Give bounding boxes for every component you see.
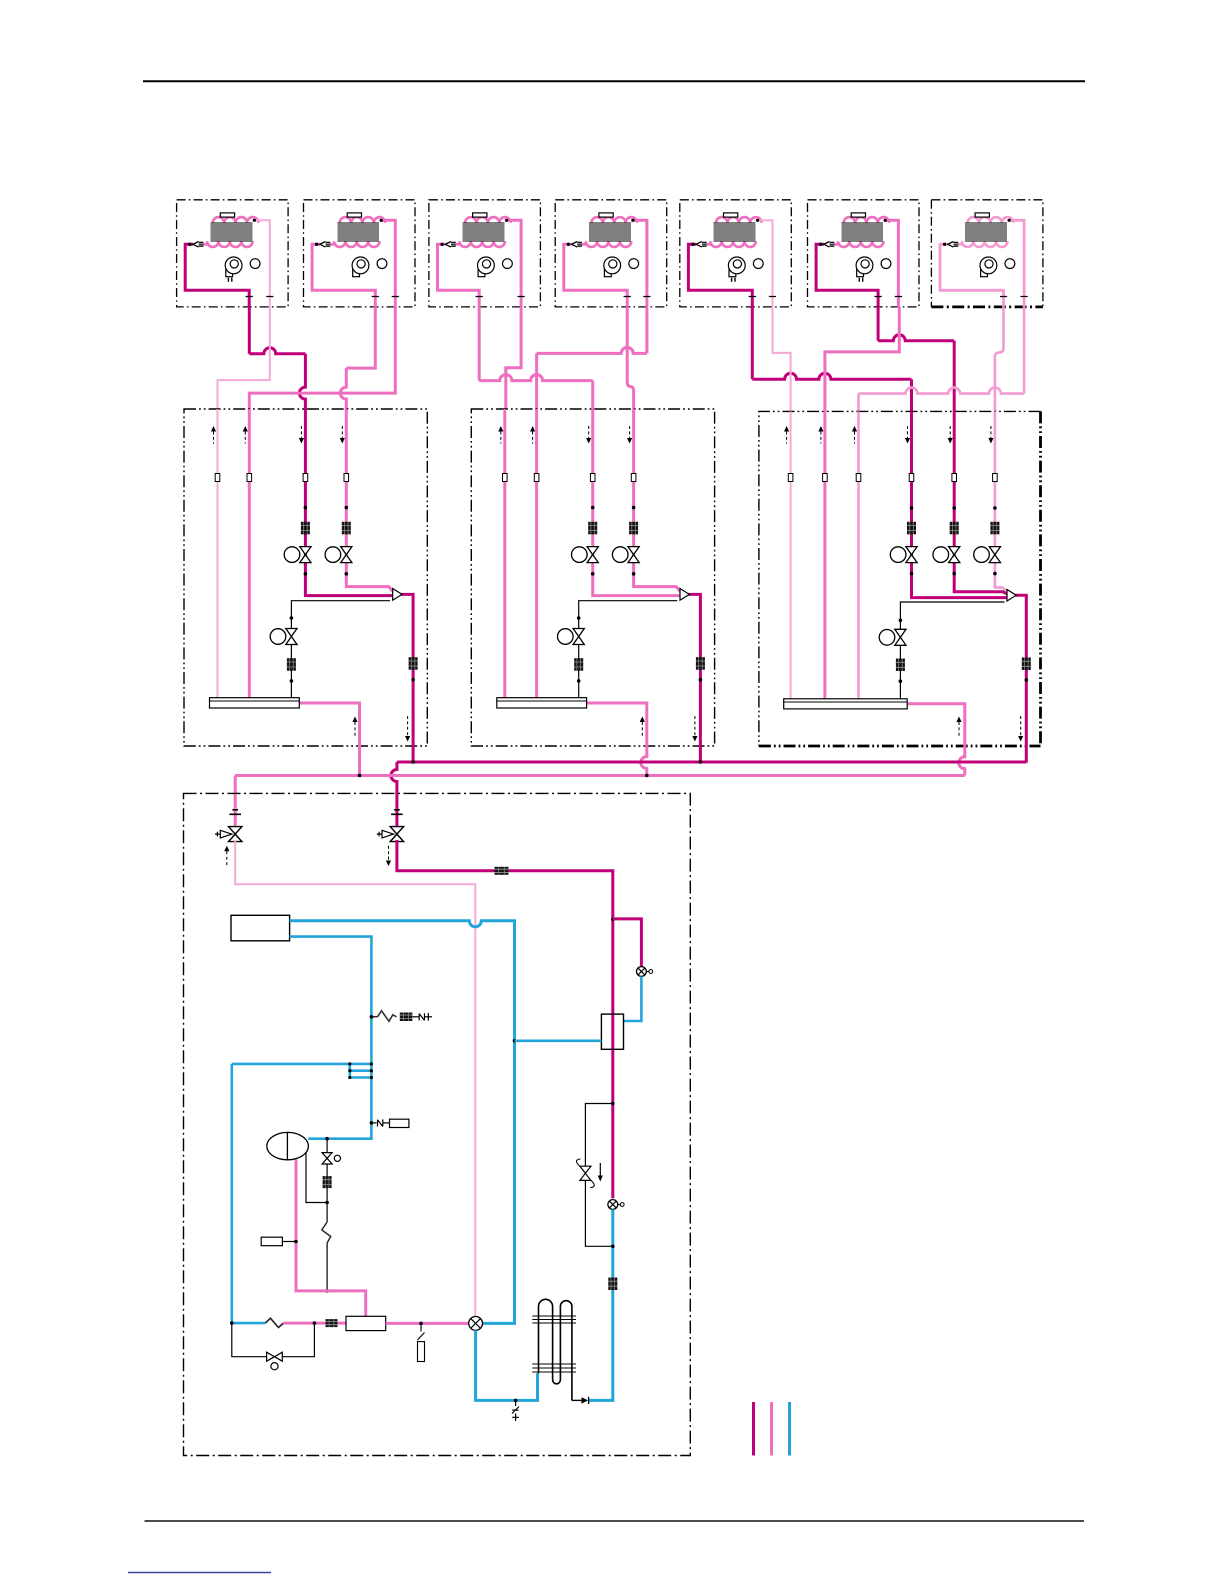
- junction dot: [411, 678, 415, 682]
- liquid line: [235, 840, 475, 1317]
- junction dot: [632, 572, 636, 576]
- IU3 liquid node: [505, 219, 508, 222]
- IU5 heat exchanger fins: [714, 223, 756, 241]
- junction dot: [699, 760, 703, 764]
- IU6 gas pipe: [816, 244, 878, 307]
- BS1 pipe D flow arrow: [340, 426, 345, 444]
- BS3 liquid branch pipe A: [790, 411, 792, 698]
- BS1 pipe A flow arrow: [211, 426, 216, 444]
- IU5 electronic expansion valve: [696, 242, 706, 248]
- gas service pipe: [395, 794, 398, 828]
- junction dot: [699, 678, 703, 682]
- wire IU6 gas horizontal: [878, 335, 954, 341]
- BS3 flow arrow down: [948, 426, 953, 444]
- high pressure switch link: [371, 1119, 389, 1126]
- IU1 electronic expansion valve: [193, 242, 203, 248]
- BS1 suction outlet pipe: [299, 703, 359, 776]
- IU4 auxiliary circle: [629, 259, 639, 269]
- BS2 pipe B flow arrow: [530, 426, 535, 444]
- IU6 thermistor: [851, 213, 865, 217]
- junction dot: [325, 1289, 329, 1293]
- IU3 gas pipe: [438, 244, 480, 307]
- IU4 electronic expansion valve: [572, 242, 582, 248]
- discharge gas line: [397, 840, 613, 1198]
- junction dot: [591, 572, 595, 576]
- IU5 auxiliary circle: [753, 259, 763, 269]
- BS1 pipe B flow arrow: [243, 426, 248, 444]
- BS3 pipe connector: [993, 474, 998, 482]
- IU2 liquid node: [380, 219, 383, 222]
- BS3 high pressure outlet pipe: [1016, 595, 1027, 763]
- junction dot: [513, 1039, 517, 1043]
- BS3 strainer: [907, 522, 916, 535]
- relief port symbol: [413, 1013, 433, 1021]
- suction gas header: [235, 774, 965, 777]
- BS3 pipe connector: [856, 474, 861, 482]
- IU7 gas node: [943, 243, 946, 246]
- BS2 motorized valve: [572, 547, 599, 563]
- service port: [512, 1400, 519, 1421]
- IU4 pipe joint ticks: [624, 296, 651, 298]
- pressure sensor PS1: [637, 967, 653, 977]
- BS1 strainer: [301, 522, 310, 535]
- IU2 pipe joint ticks: [372, 296, 399, 298]
- IU1 auxiliary circle: [250, 259, 260, 269]
- IU5 coil inlet stub: [700, 243, 711, 246]
- junction dot: [993, 506, 997, 510]
- IU5 gas pipe: [688, 244, 752, 307]
- suction line from coil: [476, 1330, 538, 1400]
- IU3 heat exchanger coil loops: [459, 217, 510, 247]
- BS3 gas branch pipe D: [912, 411, 1008, 597]
- BS3 subcool strainer: [896, 659, 905, 672]
- wire IU7 liquid into BS3: [857, 394, 860, 412]
- junction dot: [345, 506, 349, 510]
- IU4 gas node: [567, 243, 570, 246]
- gas line service valve: [377, 810, 404, 842]
- junction dot: [591, 506, 595, 510]
- junction dot: [411, 760, 415, 764]
- BS2 pipe C flow arrow: [586, 426, 591, 444]
- IU4 heat exchanger fins: [589, 223, 631, 241]
- BS2 high pressure outlet pipe: [688, 594, 700, 762]
- BS3 suction flow arrow: [956, 717, 961, 738]
- BS3 check valve: [1007, 590, 1016, 602]
- IU7 auxiliary circle: [1005, 259, 1015, 269]
- IU1 liquid pipe: [253, 220, 270, 307]
- subcool HX inlet: [624, 976, 642, 1021]
- suction line to four way valve: [290, 921, 515, 1324]
- IU6 coil inlet stub: [828, 243, 839, 246]
- IU3 auxiliary circle: [503, 259, 513, 269]
- BS1 gas branch pipe C: [305, 409, 392, 596]
- footer link line: [128, 1572, 271, 1574]
- BS1 subcool valve: [270, 629, 297, 645]
- gas line service valve flow arrow: [386, 846, 391, 866]
- IU6 fan running marks: [859, 278, 862, 282]
- junction dot: [514, 1399, 518, 1403]
- IU5 fan running marks: [732, 278, 735, 282]
- junction dot: [899, 679, 903, 683]
- wire IU7 gas: [995, 307, 1004, 412]
- BS2 strainer: [588, 522, 597, 535]
- junction dot: [325, 1137, 329, 1141]
- IU3 liquid pipe: [505, 220, 521, 307]
- junction dot: [348, 1062, 351, 1065]
- IU4 thermistor: [599, 213, 613, 217]
- BS2 subcool valve: [558, 629, 585, 645]
- BS unit 3 enclosure box: [759, 411, 1041, 746]
- BS2 liquid branch pipe B: [535, 409, 538, 698]
- BS1 strainer: [342, 522, 351, 535]
- IU6 auxiliary circle: [881, 259, 891, 269]
- BS3 liquid branch pipe C: [857, 411, 860, 698]
- junction dot: [910, 572, 914, 576]
- IU5 heat exchanger coil loops: [710, 217, 761, 247]
- IU6 liquid pipe: [883, 220, 898, 307]
- junction dot: [611, 1245, 615, 1249]
- IU2 heat exchanger fins: [337, 223, 379, 241]
- legend suction gas: [770, 1402, 773, 1456]
- BS2 check valve: [680, 589, 689, 601]
- IU3 fan: [478, 257, 495, 277]
- wire IU5 gas horizontal: [752, 373, 911, 379]
- IU4 liquid pipe: [631, 220, 647, 307]
- discharge line to muffler: [283, 1322, 346, 1325]
- oil return line: [232, 1323, 315, 1357]
- BS2 suction flow arrow: [640, 717, 645, 738]
- BS1 discharge flow arrow: [405, 716, 410, 742]
- wire IU6 gas down: [877, 307, 880, 341]
- BS2 gas branch pipe C: [593, 409, 680, 596]
- IU2 thermistor: [347, 213, 361, 217]
- IU3 coil inlet stub: [449, 243, 460, 246]
- BS3 flow arrow up: [784, 426, 789, 444]
- junction dot: [577, 679, 581, 683]
- IU1 gas node: [188, 243, 191, 246]
- injection strainer: [323, 1176, 332, 1188]
- coil outlet check valve: [572, 1397, 589, 1404]
- outdoor heat exchanger coil: [539, 1299, 572, 1400]
- IU1 heat exchanger coil loops: [207, 217, 258, 247]
- IU2 liquid pipe: [379, 220, 395, 307]
- BS2 strainer: [629, 522, 638, 535]
- BS1 pipe C flow arrow: [299, 426, 304, 444]
- BS3 pipe connector: [952, 474, 957, 482]
- BS3 flow arrow up: [852, 426, 857, 444]
- subcool plate heat exchanger: [601, 1014, 623, 1049]
- IU6 liquid node: [884, 219, 887, 222]
- BS3 subcool line: [900, 602, 1004, 699]
- BS1 liquid branch pipe B: [248, 409, 251, 698]
- BS3 pipe connector: [909, 474, 914, 482]
- junction dot: [370, 1062, 373, 1065]
- junction dot: [370, 1015, 374, 1019]
- wire IU1 gas horizontal: [249, 348, 305, 354]
- IU2 coil inlet stub: [324, 243, 335, 246]
- wire IU3 gas into BS2: [591, 381, 594, 410]
- coil fins: [532, 1316, 576, 1372]
- BS1 subcool strainer: [287, 658, 296, 671]
- IU1 thermistor: [220, 213, 234, 217]
- IU4 fan: [604, 257, 621, 277]
- BS1 outlet strainer: [409, 657, 418, 670]
- BS3 subcool valve: [879, 629, 906, 645]
- IU3 pipe joint ticks: [476, 296, 525, 298]
- discharge thermistor: [261, 1237, 282, 1246]
- liquid line service valve: [215, 810, 242, 842]
- BS3 strainer: [990, 522, 999, 535]
- BS3 gas branch pipe E: [954, 411, 1007, 594]
- BS1 check valve: [393, 589, 402, 601]
- branch to subcool heat exchanger: [613, 919, 642, 967]
- IU4 gas pipe: [564, 244, 627, 307]
- junction dot: [645, 774, 649, 778]
- BS3 suction outlet pipe: [907, 704, 965, 776]
- IU6 fan: [856, 257, 873, 277]
- junction dot: [370, 1069, 373, 1072]
- BS1 suction flow arrow: [352, 717, 357, 738]
- junction dot: [910, 506, 914, 510]
- BS1 motorized valve: [325, 547, 352, 563]
- indoor unit 1 enclosure box: [177, 200, 289, 307]
- BS3 flow arrow down: [988, 426, 993, 444]
- IU4 coil inlet stub: [576, 243, 587, 246]
- BS2 subcool strainer: [574, 658, 583, 671]
- BS3 liquid header bar: [784, 699, 908, 709]
- BS2 discharge flow arrow: [692, 716, 697, 742]
- IU1 pipe joint ticks: [246, 296, 274, 298]
- wire IU3 gas horizontal: [479, 375, 593, 381]
- BS1 pipe C connector: [303, 474, 308, 482]
- BS3 strainer: [950, 522, 959, 535]
- wire IU3 liquid: [506, 307, 521, 410]
- BS2 suction outlet pipe: [587, 703, 647, 776]
- junction dot: [290, 679, 294, 683]
- BS3 pipe connector: [823, 474, 828, 482]
- IU7 gas pipe: [940, 244, 1004, 307]
- junction dot: [577, 616, 581, 620]
- IU3 electronic expansion valve: [445, 242, 455, 248]
- wire IU7 liquid horizontal: [859, 388, 1025, 394]
- wire IU5 gas down: [751, 307, 754, 379]
- IU5 liquid node: [756, 219, 759, 222]
- BS3 outlet strainer: [1022, 658, 1031, 671]
- IU6 pipe joint ticks: [875, 296, 903, 298]
- BS2 pipe D flow arrow: [627, 426, 632, 444]
- BS2 pipe B connector: [534, 474, 539, 482]
- IU7 coil inlet stub: [952, 243, 963, 246]
- wire IU2 liquid: [249, 307, 395, 410]
- discharge filter: [326, 1319, 338, 1327]
- wire IU1 gas down: [248, 307, 251, 354]
- wire IU5 liquid: [773, 307, 791, 412]
- BS2 liquid header bar: [497, 698, 587, 708]
- indoor unit 6 enclosure box: [808, 200, 920, 307]
- BS3 gas branch pipe F: [995, 411, 1008, 591]
- junction dot: [993, 572, 997, 576]
- BS3 flow arrow down: [905, 426, 910, 444]
- junction dot: [370, 1121, 374, 1125]
- IU3 thermistor: [473, 213, 487, 217]
- wire IU3 gas down: [478, 307, 481, 381]
- IU2 auxiliary circle: [377, 259, 387, 269]
- BS3 discharge flow arrow: [1018, 716, 1023, 742]
- IU1 liquid node: [253, 219, 256, 222]
- IU2 gas node: [315, 243, 318, 246]
- liquid line service valve flow arrow: [224, 846, 229, 866]
- BS1 pipe B connector: [247, 474, 252, 482]
- IU5 pipe joint ticks: [749, 296, 776, 298]
- discharge line to four way valve: [386, 1322, 469, 1325]
- BS3 motorized valve: [933, 547, 960, 563]
- wire IU4 liquid verticals: [537, 307, 647, 410]
- wire IU4 liquid horizontal: [537, 347, 647, 353]
- legend liquid: [788, 1402, 791, 1456]
- junction dot: [1025, 678, 1029, 682]
- IU7 fan: [980, 257, 997, 277]
- junction dot: [325, 1201, 329, 1205]
- IU4 heat exchanger coil loops: [586, 217, 637, 247]
- IU1 fan running marks: [228, 278, 231, 282]
- BS1 liquid header bar: [210, 698, 300, 708]
- wire IU1 gas into BS1: [299, 354, 305, 410]
- footer rule: [145, 1520, 1085, 1522]
- discharge muffler: [346, 1316, 386, 1330]
- junction dot: [419, 1322, 423, 1326]
- suction line to accumulator: [290, 937, 372, 1139]
- BS2 pipe D connector: [631, 474, 636, 482]
- IU7 heat exchanger coil loops: [962, 217, 1013, 247]
- inverter cooling box: [231, 915, 290, 941]
- BS unit 2 enclosure box: [471, 409, 714, 746]
- IU6 electronic expansion valve: [824, 242, 834, 248]
- wire IU2 gas: [346, 307, 375, 368]
- BS2 pipe A connector: [503, 474, 508, 482]
- junction dot: [632, 506, 636, 510]
- IU1 coil inlet stub: [197, 243, 208, 246]
- junction dot: [294, 1240, 298, 1244]
- junction dot: [313, 1321, 317, 1325]
- suction branch to subcool HX: [515, 1040, 602, 1043]
- BS3 liquid branch pipe B: [823, 411, 826, 698]
- wire IU6 liquid: [825, 307, 899, 412]
- BS unit 1 enclosure box: [184, 409, 427, 746]
- injection solenoid valve: [322, 1153, 340, 1164]
- high pressure gas header: [397, 761, 1026, 764]
- BS1 motorized valve: [284, 547, 311, 563]
- IU1 fan: [225, 257, 242, 277]
- IU1 gas pipe: [185, 244, 249, 307]
- junction dot: [952, 506, 956, 510]
- bypass solenoid valve: [576, 1159, 594, 1188]
- compressor: [267, 1132, 309, 1159]
- IU7 electronic expansion valve: [948, 242, 958, 248]
- junction dot: [304, 506, 308, 510]
- junction dot: [345, 572, 349, 576]
- legend high pressure gas: [752, 1402, 755, 1456]
- BS3 pipe connector: [788, 474, 793, 482]
- junction dot: [348, 1069, 351, 1072]
- IU5 fan: [728, 257, 745, 277]
- gas line filter: [495, 867, 509, 875]
- injection line: [326, 1139, 328, 1291]
- outdoor unit enclosure box: [184, 793, 691, 1455]
- oil capillary branch: [371, 1011, 396, 1022]
- accumulator inlet ladder: [232, 1064, 372, 1078]
- BS1 high pressure outlet pipe: [401, 594, 413, 762]
- wire IU5 gas into BS3: [910, 379, 913, 412]
- BS2 gas branch pipe D: [634, 409, 681, 592]
- wire IU4 gas: [627, 307, 633, 410]
- discharge thermistor link: [282, 1241, 296, 1243]
- suction drop to service valve: [234, 776, 237, 795]
- suction flex joint: [265, 1318, 283, 1327]
- IU2 fan: [352, 257, 369, 277]
- BS3 motorized valve: [974, 547, 1001, 563]
- compressor discharge pipe: [296, 1160, 366, 1317]
- pressure sensor PS2: [608, 1200, 624, 1210]
- IU5 gas node: [691, 243, 694, 246]
- hot gas bypass line: [585, 1104, 612, 1247]
- IU7 liquid node: [1008, 219, 1011, 222]
- IU2 heat exchanger coil loops: [334, 217, 385, 247]
- wire IU2 gas into BS1: [340, 368, 346, 410]
- IU5 thermistor: [724, 213, 738, 217]
- IU3 gas node: [440, 243, 443, 246]
- junction dot: [230, 1321, 234, 1325]
- junction dot: [290, 616, 294, 620]
- wire IU7 liquid down: [1023, 307, 1026, 394]
- wire IU6 gas into BS3: [953, 341, 956, 412]
- BS1 gas branch pipe D: [346, 409, 393, 592]
- oil return valve: [267, 1352, 283, 1370]
- junction dot: [899, 619, 903, 623]
- four way valve: [469, 1317, 483, 1331]
- IU1 heat exchanger fins: [210, 223, 252, 241]
- injection capillary flex: [322, 1222, 331, 1243]
- indoor unit 7 enclosure box: [931, 200, 1043, 307]
- BS2 outlet strainer: [696, 657, 705, 670]
- IU7 pipe joint ticks: [1000, 296, 1028, 298]
- IU4 liquid node: [631, 219, 634, 222]
- wire IU1 liquid: [218, 307, 270, 410]
- junction dot: [952, 572, 956, 576]
- suction down pipe: [232, 1064, 266, 1323]
- indoor unit 2 enclosure box: [304, 200, 416, 307]
- junction dot: [370, 1076, 373, 1079]
- indoor unit 5 enclosure box: [680, 200, 792, 307]
- IU6 heat exchanger coil loops: [838, 217, 889, 247]
- compressor oil line: [306, 1152, 327, 1203]
- top rule: [143, 80, 1085, 82]
- low pressure gas riser: [589, 1209, 613, 1400]
- junction dot: [611, 1102, 615, 1106]
- BS2 pipe A flow arrow: [498, 426, 503, 444]
- BS2 liquid branch pipe A: [503, 409, 506, 698]
- IU3 heat exchanger fins: [463, 223, 505, 241]
- BS1 pipe D connector: [344, 474, 349, 482]
- discharge port capillary: [418, 1325, 425, 1362]
- BS2 pipe C connector: [590, 474, 595, 482]
- high pressure gas drop to service valve: [391, 762, 397, 795]
- riser filter: [608, 1278, 617, 1291]
- BS2 motorized valve: [612, 547, 639, 563]
- IU2 electronic expansion valve: [320, 242, 330, 248]
- IU7 thermistor: [975, 213, 989, 217]
- BS2 subcool line: [579, 601, 678, 698]
- IU7 liquid pipe: [1007, 220, 1024, 307]
